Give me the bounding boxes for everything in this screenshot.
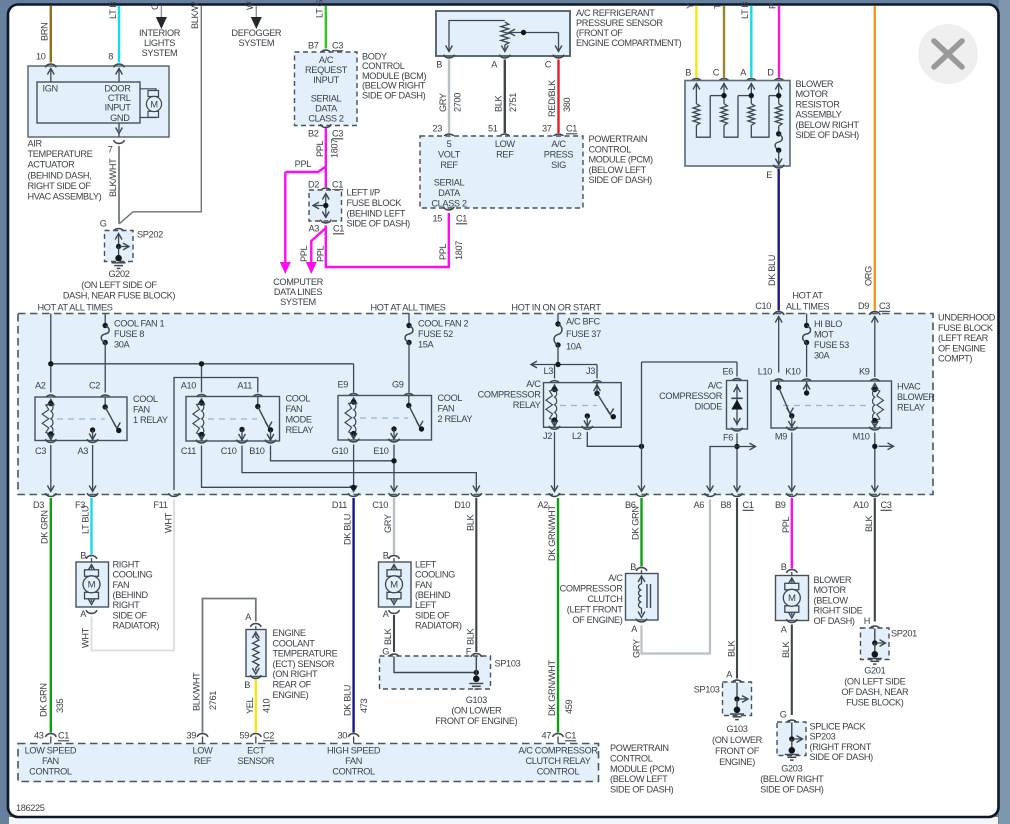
svg-text:2761: 2761: [208, 691, 218, 710]
svg-text:YEL: YEL: [245, 697, 255, 714]
svg-text:B9: B9: [775, 500, 786, 510]
bus from A2 feed to E9 and A10: [51, 363, 354, 365]
fuse 37 A/C BFC 10A: [557, 314, 559, 325]
wire C11 joining D11: [202, 446, 354, 488]
svg-text:C3: C3: [332, 41, 343, 51]
svg-text:(BELOW: (BELOW: [814, 595, 849, 605]
svg-text:SIDE OF: SIDE OF: [113, 610, 148, 620]
svg-text:F11: F11: [153, 500, 167, 510]
svg-text:RIGHT SIDE: RIGHT SIDE: [814, 606, 863, 616]
svg-text:BLK: BLK: [383, 627, 393, 645]
svg-text:BLK: BLK: [864, 514, 874, 532]
svg-text:ENGINE): ENGINE): [273, 690, 309, 700]
svg-text:B2: B2: [308, 129, 319, 139]
wire E10 to exit C10: [393, 445, 395, 491]
svg-text:C1: C1: [566, 124, 577, 134]
svg-text:CLUTCH: CLUTCH: [587, 594, 622, 604]
svg-text:C: C: [713, 68, 720, 78]
svg-text:43: 43: [34, 731, 44, 741]
fuse 52 cool fan 2 15A: [408, 314, 410, 326]
svg-text:1807: 1807: [454, 241, 464, 260]
svg-text:ENGINE COMPARTMENT): ENGINE COMPARTMENT): [576, 38, 682, 48]
svg-text:G10: G10: [332, 446, 349, 456]
wire PPL exit B9 to blower motor B: [791, 498, 793, 569]
svg-text:RIGHT: RIGHT: [113, 600, 141, 610]
svg-text:COMPRESSOR: COMPRESSOR: [659, 391, 723, 401]
svg-text:D2: D2: [308, 180, 319, 190]
wire B10 joining E10: [271, 446, 395, 461]
svg-text:REAR OF: REAR OF: [273, 680, 312, 690]
svg-text:G103: G103: [726, 724, 747, 734]
HVAC blower relay switch: [778, 381, 780, 388]
svg-text:H: H: [864, 616, 870, 626]
svg-text:ALL TIMES: ALL TIMES: [786, 302, 830, 312]
svg-text:SENSOR: SENSOR: [237, 756, 274, 766]
wire PPL 1807 from BCM B2 to left I/P fuse block D2: [325, 128, 327, 187]
svg-text:A/C: A/C: [608, 573, 623, 583]
pressure sensor potentiometer: [449, 21, 505, 52]
svg-text:T: T: [712, 3, 722, 9]
svg-text:473: 473: [359, 698, 369, 713]
svg-text:8: 8: [108, 52, 113, 62]
wire M9 to exit B9: [791, 433, 793, 491]
svg-text:E9: E9: [337, 380, 348, 390]
svg-text:C: C: [545, 60, 552, 70]
blower resistor network: [693, 84, 700, 90]
svg-text:MODULE (PCM): MODULE (PCM): [589, 155, 653, 165]
wire BRN to air temperature actuator pin 10: [50, 6, 52, 63]
svg-text:BLK: BLK: [781, 640, 791, 658]
svg-text:G: G: [150, 3, 160, 10]
svg-text:INPUT: INPUT: [313, 75, 340, 85]
svg-text:F6: F6: [723, 433, 733, 443]
svg-text:380: 380: [562, 97, 572, 112]
ground G103 right: [730, 713, 744, 715]
svg-text:REF: REF: [440, 160, 458, 170]
svg-text:B: B: [630, 562, 636, 572]
fuse 8 cool fan 1 30A: [104, 314, 106, 326]
svg-text:RELAY: RELAY: [286, 425, 314, 435]
svg-text:FUSE BLOCK: FUSE BLOCK: [938, 323, 994, 333]
svg-text:1807: 1807: [329, 139, 339, 158]
arrow to interior lights system: [160, 6, 162, 17]
svg-text:RELAY: RELAY: [897, 403, 925, 413]
wire BLK 2751 sensor A to PCM 51: [504, 60, 506, 134]
wire PNK to blower resistor D: [778, 6, 780, 78]
svg-text:COMPT): COMPT): [938, 354, 972, 364]
svg-text:OF ENGINE: OF ENGINE: [938, 343, 986, 353]
svg-text:RED/BLK: RED/BLK: [547, 79, 557, 117]
cool fan 2 relay switch: [408, 396, 410, 406]
svg-text:SYSTEM: SYSTEM: [142, 48, 178, 58]
wire PPL from A3 to PCM pin 15: [326, 213, 449, 267]
svg-text:LOW SPEED: LOW SPEED: [25, 746, 77, 756]
svg-text:INTERIOR: INTERIOR: [139, 28, 181, 38]
svg-text:A10: A10: [853, 500, 869, 510]
svg-text:FAN: FAN: [438, 404, 455, 414]
svg-text:C3: C3: [879, 301, 890, 311]
svg-text:FUSE 52: FUSE 52: [418, 329, 453, 339]
svg-text:AIR: AIR: [28, 139, 43, 149]
A/C refrigerant pressure sensor box: [436, 11, 570, 56]
svg-text:COOL FAN 1: COOL FAN 1: [114, 319, 165, 329]
wire J2 to exit A2: [554, 432, 556, 490]
svg-text:2 RELAY: 2 RELAY: [438, 414, 473, 424]
svg-text:10A: 10A: [566, 342, 583, 352]
svg-text:C10: C10: [221, 446, 237, 456]
svg-text:K10: K10: [785, 367, 801, 377]
svg-text:B: B: [244, 680, 250, 690]
svg-text:COMPRESSOR: COMPRESSOR: [560, 584, 624, 594]
actuator GND output to pin 7: [118, 123, 120, 131]
svg-text:ASSEMBLY: ASSEMBLY: [796, 110, 842, 120]
A/C compressor diode: [641, 362, 643, 446]
svg-text:SIG: SIG: [551, 160, 566, 170]
svg-text:L10: L10: [758, 367, 773, 377]
svg-text:SIDE OF DASH): SIDE OF DASH): [347, 219, 411, 229]
wire LT BLU to blower resistor A: [750, 6, 752, 78]
svg-text:COMPRESSOR: COMPRESSOR: [478, 390, 542, 400]
wire YEL to blower resistor B: [695, 6, 697, 78]
svg-text:M: M: [150, 100, 157, 110]
svg-text:G201: G201: [864, 666, 885, 676]
svg-text:C1: C1: [743, 500, 754, 510]
wire DK BLU 473 exit D11 to PCM 30 high speed fan control: [352, 498, 354, 733]
motor M inside air temperature actuator: [140, 89, 156, 91]
svg-text:K9: K9: [859, 367, 870, 377]
svg-text:CONTROL: CONTROL: [537, 767, 580, 777]
svg-text:(BEHIND DASH,: (BEHIND DASH,: [28, 170, 92, 180]
svg-text:(ON LOWER: (ON LOWER: [712, 735, 763, 745]
svg-text:BLK: BLK: [493, 94, 503, 112]
svg-text:A/C: A/C: [526, 379, 541, 389]
svg-text:HI BLO: HI BLO: [814, 319, 842, 329]
svg-text:G103: G103: [466, 695, 487, 705]
svg-text:D10: D10: [454, 500, 470, 510]
svg-text:REQUEST: REQUEST: [305, 65, 348, 75]
svg-text:ORG: ORG: [863, 266, 873, 286]
svg-text:CTRL: CTRL: [108, 93, 131, 103]
HVAC blower relay coil: [871, 384, 878, 390]
splice SP202: [113, 229, 124, 232]
svg-text:G202: G202: [108, 269, 129, 279]
svg-text:M: M: [390, 580, 398, 591]
svg-text:HVAC ASSEMBLY): HVAC ASSEMBLY): [28, 192, 102, 202]
svg-text:SIDE OF: SIDE OF: [415, 610, 450, 620]
svg-text:HOT AT: HOT AT: [792, 291, 823, 301]
svg-text:(BEHIND: (BEHIND: [113, 590, 149, 600]
svg-text:51: 51: [488, 124, 498, 134]
svg-text:FAN: FAN: [286, 404, 303, 414]
svg-text:23: 23: [432, 124, 442, 134]
svg-text:CONTROL: CONTROL: [610, 753, 653, 763]
A/C compressor clutch: [626, 574, 659, 621]
svg-text:BLOWER: BLOWER: [897, 392, 935, 402]
svg-text:A/C COMPRESSOR: A/C COMPRESSOR: [518, 746, 598, 756]
wire DK GRN/WHT 459 exit A2 to PCM 47 compressor clutch relay control: [557, 498, 559, 733]
svg-text:A/C BFC: A/C BFC: [566, 317, 601, 327]
svg-text:LOW: LOW: [193, 746, 214, 756]
svg-text:W: W: [245, 1, 255, 10]
svg-text:335: 335: [55, 698, 65, 713]
svg-text:B: B: [685, 68, 691, 78]
svg-text:D3: D3: [33, 500, 44, 510]
wire C10 to exit D10: [242, 446, 476, 491]
svg-text:GND: GND: [110, 113, 130, 123]
svg-text:HVAC: HVAC: [897, 382, 921, 392]
svg-text:LT G: LT G: [314, 0, 324, 18]
wire DK GRN exit B6 to compressor clutch B: [640, 498, 642, 567]
svg-text:ENGINE: ENGINE: [273, 628, 306, 638]
svg-text:MOTOR: MOTOR: [796, 89, 829, 99]
svg-text:DK GRN/WHT: DK GRN/WHT: [547, 660, 557, 716]
ground G103 left: [469, 683, 483, 685]
svg-text:DK BLU: DK BLU: [342, 514, 352, 545]
svg-text:A/C: A/C: [319, 55, 334, 65]
wire BLK exit D10 to left fan SP103 F: [475, 498, 477, 652]
svg-text:15A: 15A: [418, 340, 435, 350]
svg-text:BLK: BLK: [726, 639, 736, 657]
svg-text:L3: L3: [543, 366, 553, 376]
svg-text:G: G: [382, 647, 389, 657]
svg-text:DK GRN: DK GRN: [39, 510, 49, 544]
svg-text:BLK: BLK: [465, 627, 475, 645]
svg-text:A3: A3: [308, 224, 319, 234]
splice SP201: [869, 626, 880, 629]
motor left cooling fan: [379, 562, 412, 607]
svg-text:BLK/WHT: BLK/WHT: [191, 672, 201, 711]
svg-text:E10: E10: [373, 446, 389, 456]
svg-text:2751: 2751: [508, 93, 518, 112]
svg-text:FRONT OF: FRONT OF: [715, 746, 760, 756]
wire ORG to underhood fuse block D9: [874, 6, 876, 311]
svg-text:FAN: FAN: [113, 580, 130, 590]
svg-text:MODE: MODE: [286, 415, 312, 425]
svg-text:C1: C1: [58, 731, 69, 741]
svg-text:M10: M10: [853, 432, 870, 442]
svg-text:PPL: PPL: [315, 140, 325, 157]
svg-text:(BELOW RIGHT: (BELOW RIGHT: [760, 774, 824, 784]
svg-text:SP201: SP201: [891, 629, 917, 639]
svg-text:LT B: LT B: [740, 2, 750, 19]
svg-text:SIDE OF DASH): SIDE OF DASH): [796, 130, 860, 140]
svg-text:SERIAL: SERIAL: [311, 94, 342, 104]
fuse 53 HI BLO MOT 30A: [806, 314, 808, 326]
motor blower motor: [776, 576, 809, 621]
svg-text:FAN: FAN: [42, 756, 59, 766]
svg-text:5: 5: [447, 139, 452, 149]
svg-text:P: P: [767, 3, 777, 9]
svg-text:G9: G9: [392, 380, 404, 390]
svg-text:CLASS 2: CLASS 2: [431, 199, 467, 209]
svg-text:SERIAL: SERIAL: [434, 178, 465, 188]
ground G203: [785, 754, 799, 756]
svg-text:(BELOW LEFT: (BELOW LEFT: [610, 774, 668, 784]
svg-text:IGN: IGN: [43, 84, 58, 94]
svg-text:PPL: PPL: [299, 245, 309, 262]
svg-text:SP103: SP103: [694, 685, 720, 695]
svg-text:DK BLU: DK BLU: [342, 685, 352, 716]
svg-text:SYSTEM: SYSTEM: [238, 38, 274, 48]
svg-text:SP203: SP203: [810, 732, 836, 742]
svg-text:SPLICE PACK: SPLICE PACK: [810, 722, 867, 732]
svg-text:459: 459: [564, 699, 574, 714]
svg-text:J2: J2: [543, 431, 552, 441]
wire A3 to exit F3: [92, 445, 94, 490]
svg-text:A/C: A/C: [708, 381, 723, 391]
wire PPL from A3 to computer data lines arrow 2: [311, 226, 326, 263]
wire BLK/WHT 2761 ECT sensor A to PCM 39 low ref: [203, 599, 256, 733]
svg-text:C2: C2: [263, 731, 274, 741]
svg-text:PPL: PPL: [295, 159, 312, 169]
svg-text:CLASS 2: CLASS 2: [308, 114, 344, 124]
wire F6 to exits A6 and B8: [736, 433, 738, 490]
svg-text:(ECT) SENSOR: (ECT) SENSOR: [273, 659, 335, 669]
svg-text:(ON LEFT SIDE OF: (ON LEFT SIDE OF: [81, 280, 157, 290]
wire LT GRN to BCM pin B7: [325, 6, 327, 49]
svg-text:Y: Y: [685, 3, 695, 9]
svg-text:TEMPERATURE: TEMPERATURE: [28, 149, 93, 159]
svg-text:L2: L2: [572, 431, 582, 441]
svg-text:G: G: [100, 219, 107, 229]
svg-text:CLUTCH RELAY: CLUTCH RELAY: [525, 756, 590, 766]
svg-text:C3: C3: [332, 129, 343, 139]
svg-text:7: 7: [108, 145, 113, 155]
svg-text:(BEHIND: (BEHIND: [415, 590, 451, 600]
svg-text:(LEFT FRONT: (LEFT FRONT: [567, 605, 623, 615]
svg-text:DK GRN: DK GRN: [630, 506, 640, 540]
svg-text:(ON LOWER: (ON LOWER: [451, 706, 502, 716]
svg-text:DK GRN: DK GRN: [38, 683, 48, 717]
wire DK GRN 335 exit D3 to PCM 43 low speed fan control: [50, 498, 52, 733]
A/C compressor relay switch: [596, 383, 598, 394]
svg-text:CONTROL: CONTROL: [362, 61, 405, 71]
svg-text:C3: C3: [881, 500, 892, 510]
powertrain control module PCM bottom box: [18, 744, 599, 782]
svg-text:B8: B8: [720, 500, 731, 510]
wire PPL branch to computer data lines arrow 1: [285, 167, 326, 173]
svg-text:47: 47: [541, 731, 551, 741]
svg-text:59: 59: [239, 731, 249, 741]
svg-text:J3: J3: [586, 366, 595, 376]
svg-text:HOT AT ALL TIMES: HOT AT ALL TIMES: [370, 303, 445, 313]
svg-text:BLK: BLK: [465, 513, 475, 531]
bus fuse 37 to compressor relay L3 and J3: [531, 361, 537, 368]
svg-text:39: 39: [186, 731, 196, 741]
wire RED/BLK 380 sensor C to PCM 37: [557, 60, 559, 134]
svg-text:M9: M9: [775, 432, 787, 442]
svg-text:G: G: [780, 710, 787, 720]
svg-text:E: E: [766, 170, 772, 180]
wire YEL 410 ECT B to PCM 59 C2: [255, 680, 257, 733]
svg-text:PRESSURE SENSOR: PRESSURE SENSOR: [576, 18, 663, 28]
svg-text:C1: C1: [332, 180, 343, 190]
svg-text:410: 410: [261, 698, 271, 713]
svg-text:FAN: FAN: [133, 405, 150, 415]
svg-text:DOOR: DOOR: [104, 84, 131, 94]
svg-text:B7: B7: [308, 41, 319, 51]
splice SP103 left: [389, 654, 400, 657]
body control module BCM box: [320, 50, 331, 53]
close button X: [918, 24, 978, 84]
svg-text:FRONT OF ENGINE): FRONT OF ENGINE): [435, 716, 517, 726]
svg-text:C3: C3: [35, 446, 46, 456]
cool fan 1 relay coil: [47, 400, 54, 406]
svg-text:C10: C10: [372, 500, 388, 510]
svg-text:DIODE: DIODE: [695, 402, 723, 412]
svg-text:B: B: [436, 60, 442, 70]
svg-text:30: 30: [337, 731, 347, 741]
svg-text:A10: A10: [181, 381, 197, 391]
svg-text:FUSE 37: FUSE 37: [566, 329, 601, 339]
svg-text:BLOWER: BLOWER: [796, 79, 834, 89]
svg-text:COMPUTER: COMPUTER: [273, 277, 323, 287]
svg-text:C1: C1: [456, 214, 467, 224]
svg-text:2700: 2700: [452, 93, 462, 112]
svg-text:BLK/W: BLK/W: [190, 1, 200, 29]
svg-text:(RIGHT FRONT: (RIGHT FRONT: [810, 742, 872, 752]
wire BLK exit B8 to splice SP103 right: [736, 498, 738, 679]
svg-text:BRN: BRN: [39, 23, 49, 41]
svg-text:SIDE OF DASH): SIDE OF DASH): [760, 785, 824, 795]
svg-text:MODULE (BCM): MODULE (BCM): [362, 71, 426, 81]
svg-text:GRY: GRY: [438, 93, 448, 112]
svg-text:SP103: SP103: [495, 659, 521, 669]
wire GRY exit C10 to left cooling fan B: [393, 498, 395, 555]
svg-text:PPL: PPL: [438, 243, 448, 260]
underhood fuse block box: [18, 314, 933, 495]
svg-text:SIDE OF DASH): SIDE OF DASH): [810, 752, 874, 762]
HVAC blower relay K10 stub: [806, 381, 808, 393]
svg-text:(ON LEFT SIDE: (ON LEFT SIDE: [844, 677, 905, 687]
wire BLK/WHT pin 7 to splice SP202: [118, 146, 120, 224]
svg-text:C2: C2: [89, 381, 100, 391]
svg-text:A11: A11: [237, 381, 252, 391]
svg-text:ACTUATOR: ACTUATOR: [28, 160, 76, 170]
svg-text:DATA: DATA: [315, 104, 338, 114]
svg-text:COOL FAN 2: COOL FAN 2: [418, 319, 469, 329]
cool fan 1 relay switch: [104, 397, 106, 407]
svg-text:A/C: A/C: [551, 139, 566, 149]
svg-text:15: 15: [432, 214, 442, 224]
air temperature actuator box: [28, 66, 169, 137]
svg-text:RIGHT: RIGHT: [113, 560, 141, 570]
svg-text:186225: 186225: [16, 803, 45, 813]
wire BLK blower motor A to splice pack SP203: [791, 625, 793, 716]
svg-text:1 RELAY: 1 RELAY: [133, 415, 168, 425]
svg-text:B: B: [80, 551, 86, 561]
svg-text:FUSE 8: FUSE 8: [114, 329, 144, 339]
splice pack SP203: [786, 720, 797, 723]
wire BLK exit A10 to splice SP201: [874, 498, 876, 622]
svg-text:DK GRN/WHT: DK GRN/WHT: [547, 505, 557, 561]
wire L2 to exit B6 and diode: [587, 432, 641, 447]
svg-text:REF: REF: [194, 756, 212, 766]
svg-text:MODULE (PCM): MODULE (PCM): [610, 764, 674, 774]
svg-text:(ON RIGHT: (ON RIGHT: [273, 669, 319, 679]
svg-text:(BELOW RIGHT: (BELOW RIGHT: [796, 120, 860, 130]
svg-text:PRESS: PRESS: [544, 150, 574, 160]
splice SP103 right: [732, 680, 743, 683]
svg-text:A/C REFRIGERANT: A/C REFRIGERANT: [576, 8, 655, 18]
svg-text:HIGH SPEED: HIGH SPEED: [327, 746, 381, 756]
svg-text:HOT IN ON OR START: HOT IN ON OR START: [511, 303, 601, 313]
svg-text:RESISTOR: RESISTOR: [796, 99, 841, 109]
svg-text:BODY: BODY: [362, 52, 387, 62]
svg-text:C11: C11: [181, 446, 196, 456]
svg-text:COOL: COOL: [133, 394, 158, 404]
svg-text:BLOWER: BLOWER: [814, 575, 852, 585]
